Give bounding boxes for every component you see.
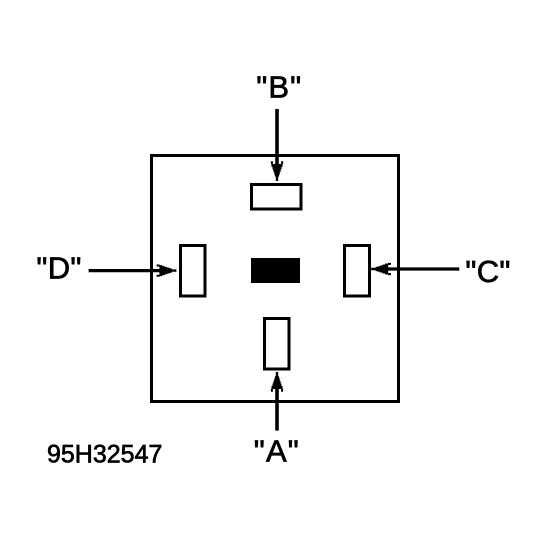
svg-text:"A": "A" [254, 433, 299, 468]
connector body outline [152, 156, 399, 402]
svg-text:"B": "B" [256, 70, 301, 105]
svg-text:"D": "D" [36, 251, 81, 286]
cavity D [181, 246, 206, 297]
cavity C [345, 246, 370, 297]
keyway (center index slot) [251, 258, 300, 283]
arrow D (pointing right into cavity D) [89, 265, 177, 277]
cavity B [252, 185, 302, 210]
cavity A [265, 319, 290, 370]
arrow A (pointing up into cavity A) [271, 372, 283, 431]
svg-text:95H32547: 95H32547 [47, 440, 162, 468]
svg-text:"C": "C" [465, 254, 510, 289]
arrow B (pointing down into cavity B) [271, 109, 283, 181]
arrow C (pointing left into cavity C) [371, 263, 459, 275]
